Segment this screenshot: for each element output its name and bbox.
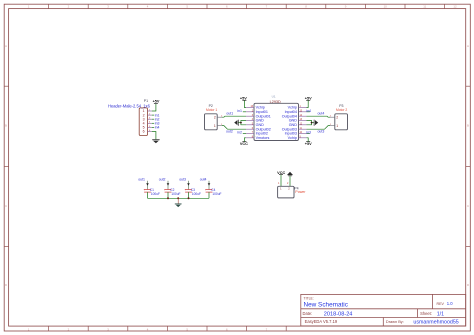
svg-text:EasyEDA V5.7.19: EasyEDA V5.7.19	[305, 319, 338, 324]
svg-text:+5V: +5V	[240, 96, 247, 100]
wire GND pins join	[241, 121, 246, 125]
U1 right pin names	[282, 106, 298, 140]
wire P2 pin1 to U1 Output02 net out2	[222, 126, 246, 130]
svg-text:1: 1	[214, 124, 216, 128]
svg-text:100uF: 100uF	[171, 192, 180, 196]
svg-text:+5V: +5V	[305, 96, 312, 100]
op-amp ... actually IC U1 L293D	[246, 95, 307, 141]
svg-text:VCC: VCC	[240, 142, 248, 146]
wire C1 to rail	[147, 192, 149, 198]
wire P1 pin1 to +5V	[152, 104, 156, 111]
power flag +5V at U1 top-right	[305, 96, 312, 100]
svg-text:Motor 1: Motor 1	[206, 108, 217, 112]
capacitor C2	[159, 177, 181, 198]
svg-text:in4: in4	[306, 109, 311, 113]
ground left of U1 (GND pins)	[234, 120, 246, 126]
C1 plates	[144, 189, 151, 191]
svg-text:+: +	[184, 188, 186, 192]
svg-text:Power: Power	[295, 190, 306, 194]
power flag VCC at U1 bottom-left	[240, 142, 248, 146]
svg-text:out2: out2	[226, 129, 233, 133]
svg-text:+5V: +5V	[153, 100, 160, 104]
junction C2-rail	[167, 197, 169, 199]
capacitor C1	[138, 177, 160, 198]
svg-text:Date:: Date:	[303, 311, 313, 316]
ground flag (inverted) at P4 pin2	[287, 172, 293, 176]
svg-text:Input04: Input04	[285, 110, 297, 114]
svg-text:1/1: 1/1	[437, 311, 444, 317]
svg-text:out3: out3	[179, 177, 186, 181]
svg-text:11: 11	[423, 4, 426, 8]
svg-text:10: 10	[384, 4, 388, 8]
frame row ticks left	[4, 86, 8, 246]
svg-text:Input01: Input01	[256, 110, 268, 114]
wire +5V to U1 Vchip left	[244, 100, 246, 107]
wire +5V to U1 Vchip bottom right	[307, 138, 309, 142]
wire U1 Input02 net in2	[243, 133, 246, 135]
svg-text:P1: P1	[144, 99, 148, 103]
capacitor C4	[200, 177, 222, 198]
connector P3 Motor 2	[330, 104, 348, 130]
wire VCC to P4 pin1	[280, 175, 282, 187]
ground right of U1 (GND pins)	[307, 120, 319, 126]
P4 body	[278, 186, 294, 198]
U1 left pin stubs	[246, 108, 254, 138]
svg-text:A: A	[5, 44, 7, 48]
svg-text:A: A	[467, 44, 469, 48]
svg-text:2: 2	[336, 115, 338, 119]
svg-text:100uF: 100uF	[192, 192, 201, 196]
P3 body	[335, 114, 348, 130]
wire P1 pin6 to ground	[152, 132, 156, 140]
connector P1 Header-Male-2.54_1x6	[108, 99, 152, 135]
wire VCC to U1 Vmotors	[244, 138, 246, 142]
wire out1 to C1	[147, 181, 149, 190]
U1 body	[254, 103, 299, 140]
svg-text:B: B	[5, 123, 7, 127]
svg-text:+: +	[143, 188, 145, 192]
connector P2 Motor 1	[205, 104, 223, 130]
svg-text:1.0: 1.0	[447, 301, 453, 306]
wire U1 Input03 net in3	[307, 133, 310, 135]
svg-text:D: D	[467, 283, 469, 287]
svg-text:Vmotors: Vmotors	[256, 136, 270, 140]
U1 right pin stubs	[299, 108, 307, 138]
wire U1 Input01 net in1	[243, 111, 246, 113]
svg-text:Sheet:: Sheet:	[420, 311, 432, 316]
svg-text:Vchip: Vchip	[288, 136, 297, 140]
P3 pin stubs	[330, 116, 335, 118]
ground symbol left	[234, 120, 238, 126]
svg-text:in4: in4	[155, 126, 160, 130]
svg-text:REV: REV	[437, 302, 445, 306]
wire P3 pin2 to U1 Output04 net out4	[307, 116, 331, 117]
connector P4 Power	[277, 171, 306, 198]
svg-text:Drawn By:: Drawn By:	[386, 319, 404, 324]
ground at P1	[152, 139, 159, 143]
U1 left pin numbers	[250, 106, 253, 138]
wire P1 pin2 net in1	[152, 114, 154, 116]
netflag arrow	[146, 183, 149, 185]
wire P1 pin4 net in3	[152, 122, 154, 124]
capacitor C3	[179, 177, 201, 198]
wire rail to ground	[177, 198, 179, 203]
frame column ticks top	[49, 4, 445, 8]
svg-text:Motor 2: Motor 2	[336, 108, 347, 112]
svg-text:2018-08-24: 2018-08-24	[324, 311, 353, 317]
power flag +5V at U1 top-left	[240, 96, 247, 100]
svg-text:100uF: 100uF	[151, 192, 160, 196]
svg-text:+: +	[205, 188, 207, 192]
svg-text:out1: out1	[138, 177, 145, 181]
svg-text:out1: out1	[226, 111, 233, 115]
svg-text:D: D	[5, 283, 7, 287]
svg-text:out2: out2	[159, 177, 166, 181]
wire P3 pin1 to U1 Output03 net out3	[307, 126, 331, 130]
svg-text:2: 2	[214, 115, 216, 119]
P1 pin names 1-6	[143, 109, 145, 134]
svg-text:GND: GND	[289, 123, 298, 127]
junction dot	[240, 122, 242, 124]
U1 left pin names	[256, 106, 271, 140]
power flag +5V at U1 bottom-right	[305, 142, 312, 146]
wire P2 pin2 to U1 Output01 net out1	[222, 116, 246, 117]
svg-text:U1: U1	[272, 95, 276, 99]
P2 pin stubs	[217, 116, 222, 118]
svg-text:in2: in2	[237, 130, 242, 134]
svg-text:C: C	[5, 204, 7, 208]
title block texts	[303, 296, 445, 324]
svg-text:out4: out4	[200, 177, 207, 181]
svg-text:New Schematic: New Schematic	[304, 301, 349, 308]
P1 pin stubs	[148, 111, 152, 132]
wire U1 Input04 net in4	[307, 111, 310, 113]
svg-text:6: 6	[143, 130, 145, 134]
svg-text:12: 12	[453, 4, 457, 8]
svg-text:1: 1	[336, 124, 338, 128]
svg-text:in3: in3	[306, 130, 311, 134]
wire gnd to P4 pin2	[289, 176, 291, 186]
power flag +5V at P1	[153, 100, 160, 104]
svg-text:in1: in1	[237, 109, 242, 113]
junction C3-rail	[188, 197, 190, 199]
frame column ticks bottom	[49, 326, 287, 331]
svg-text:usmanmehmood55: usmanmehmood55	[413, 320, 458, 326]
svg-text:+: +	[164, 188, 166, 192]
svg-text:C: C	[467, 204, 469, 208]
junction gnd-rail	[177, 197, 179, 199]
P1 body	[139, 108, 147, 136]
svg-text:out4: out4	[317, 111, 324, 115]
svg-text:VCC: VCC	[277, 171, 285, 175]
frame row letters	[5, 44, 469, 287]
P2 body	[205, 114, 218, 130]
ground below capacitors	[175, 204, 182, 208]
wire P1 pin5 net in4	[152, 126, 154, 128]
title block	[301, 294, 466, 326]
frame row ticks right	[466, 86, 471, 246]
svg-text:GND: GND	[256, 123, 265, 127]
svg-text:+5V: +5V	[305, 142, 312, 146]
svg-text:B: B	[467, 123, 469, 127]
svg-text:TITLE:: TITLE:	[304, 296, 314, 300]
svg-text:out3: out3	[317, 129, 324, 133]
U1 right pin numbers	[300, 106, 303, 138]
svg-text:100uF: 100uF	[212, 192, 221, 196]
wire +5V to U1 Vchip right	[307, 100, 309, 107]
wire capacitor ground rail	[148, 197, 210, 199]
wire P1 pin3 net in2	[152, 118, 154, 120]
